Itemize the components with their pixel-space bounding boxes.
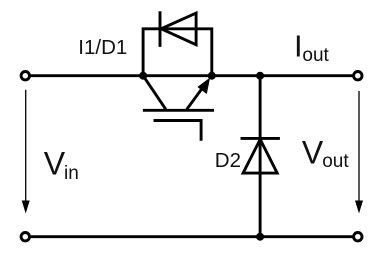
svg-text:I1/D1: I1/D1 [78,36,127,59]
Vin arrow line [25,90,27,204]
wire D2 branch [259,76,262,237]
Vin arrowhead [22,201,30,214]
diode D1 cathode bar [159,11,162,47]
label Vout [302,134,349,172]
wire bottom rail [25,235,358,238]
svg-text:V: V [302,134,324,170]
diode D2 cathode bar [241,137,280,140]
diode D1 triangle [161,13,196,45]
transistor Q1 collector slant [143,76,166,110]
transistor Q1 emitter line [187,87,204,110]
junction node left of transistor [139,72,147,80]
terminal top-right [354,72,362,80]
svg-text:D2: D2 [215,149,241,172]
terminal bottom-right [354,233,362,241]
junction node D2 bottom [256,233,264,241]
transistor Q1 main bar [143,109,214,112]
label Vin [44,146,79,185]
terminal top-left [21,72,29,80]
Vout arrow line [358,91,360,204]
wire top rail [25,74,358,77]
terminal bottom-left [21,233,29,241]
svg-text:out: out [302,45,329,66]
label Iout [294,29,330,67]
svg-text:I: I [294,29,303,64]
diode D2 triangle [243,139,277,173]
svg-text:V: V [44,146,66,182]
svg-text:out: out [322,151,349,172]
junction node D2 top [256,72,264,80]
transistor Q1 emitter arrowhead [197,78,210,95]
junction node right of transistor [208,72,216,80]
transistor Q1 gate lead [154,121,202,141]
wire D1 bypass loop [143,29,212,76]
svg-text:in: in [64,163,79,184]
Vout arrowhead [355,201,363,214]
